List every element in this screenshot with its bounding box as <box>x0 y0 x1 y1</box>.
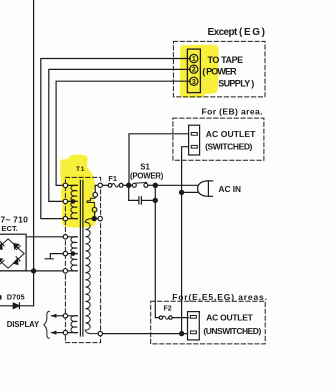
svg-text:( POWER: ( POWER <box>202 67 237 77</box>
T1 secondary A mid tap terminal <box>63 199 67 203</box>
pin 1 <box>190 54 198 62</box>
pin 3 <box>190 77 198 85</box>
highlighter over transformer T1 <box>60 155 96 228</box>
connector J TO TAPE body <box>187 49 200 93</box>
svg-text:ECT.: ECT. <box>1 224 18 233</box>
svg-text:SUPPLY ): SUPPLY ) <box>218 79 254 89</box>
outlet slot lower <box>191 145 197 148</box>
thermal fuse chain from F1 terminal <box>95 185 98 192</box>
T1 secondary A bottom tap terminal <box>63 216 67 220</box>
svg-text:(POWER): (POWER) <box>130 171 164 180</box>
T1 secondary B terminals <box>63 235 67 239</box>
highlighter over TO TAPE connector <box>180 45 219 98</box>
diode D705 line <box>0 305 34 307</box>
fuse F2 <box>159 316 162 319</box>
T1 secondary B winding <box>68 237 78 271</box>
svg-text:AC OUTLET: AC OUTLET <box>206 313 253 323</box>
wire S1 out down to F2 <box>155 185 159 317</box>
bridge diode bottom-left <box>0 258 4 264</box>
bridge diode top-left <box>0 242 4 250</box>
T1 secondary A winding <box>68 185 78 218</box>
terminal primary bottom <box>98 331 102 335</box>
AC outlet (switched) body <box>189 125 200 155</box>
wire to plug <box>155 184 197 186</box>
wire: TO TAPE pin3 to transformer top tap <box>56 81 190 185</box>
terminal right mid <box>98 216 102 220</box>
svg-text:(UNSWITCHED): (UNSWITCHED) <box>203 326 261 336</box>
transformer T1 dashed box <box>65 177 100 342</box>
T1 secondary C winding <box>68 316 78 333</box>
wire secondary B top to bridge <box>26 236 63 238</box>
chassis ground <box>45 254 63 259</box>
svg-text:For (EB) area.: For (EB) area. <box>202 107 263 117</box>
thermal fuse <box>87 197 95 207</box>
wire: switched outlet neutral down to plug neutral and bottom outlet wire <box>182 147 189 334</box>
svg-text:AC OUTLET: AC OUTLET <box>206 129 256 139</box>
terminal to F1 <box>98 183 102 187</box>
partial designator glyph at left edge <box>0 295 2 299</box>
svg-text:For(E,E5,EG) areas.: For(E,E5,EG) areas. <box>172 292 267 302</box>
bridge diamond <box>0 239 24 268</box>
svg-text:2: 2 <box>192 67 196 74</box>
bridge diode top-right <box>14 244 21 250</box>
wire: switched outlet hot to S1/F1 junction <box>129 134 189 186</box>
capacitor across S1 <box>129 185 138 200</box>
wire to display lower with arrow <box>52 332 64 334</box>
svg-text:S1: S1 <box>140 163 150 172</box>
svg-text:TO TAPE: TO TAPE <box>208 55 244 65</box>
AC plug body <box>198 181 209 196</box>
svg-text:DISPLAY: DISPLAY <box>7 320 40 329</box>
svg-text:T1: T1 <box>76 166 85 173</box>
bridge rectifier box <box>0 234 26 271</box>
dashed box Except (EG) <box>173 41 265 97</box>
plug neutral prong junction <box>180 190 184 194</box>
junction neutral <box>180 332 184 336</box>
outlet slot upper <box>190 316 196 319</box>
svg-text:3: 3 <box>192 79 196 86</box>
svg-text:(SWITCHED): (SWITCHED) <box>205 142 252 152</box>
T1 primary winding <box>85 219 94 223</box>
svg-text:AC IN: AC IN <box>219 184 242 194</box>
T1 secondary C terminals <box>63 314 67 318</box>
junction S1 out <box>153 183 157 187</box>
fuse F1 <box>108 183 112 187</box>
wire secondary B bottom <box>0 270 63 272</box>
bridge diode bottom-right <box>13 257 20 265</box>
AC outlet (unswitched) body <box>188 312 200 340</box>
display brace <box>44 311 49 338</box>
junction on border wire <box>31 269 35 273</box>
junction F1/S1 <box>127 183 131 187</box>
pin 2 <box>190 65 198 73</box>
left page border line <box>33 0 35 306</box>
main hot wire F1/S1 row <box>102 184 108 186</box>
svg-text:D705: D705 <box>7 292 25 301</box>
svg-text:Except ( E G ): Except ( E G ) <box>208 27 266 38</box>
bottom neutral wire <box>103 333 188 335</box>
diode D705 <box>13 303 19 309</box>
outlet slot lower <box>190 331 196 334</box>
dashed box For(E,E5,EG) areas <box>151 301 266 344</box>
outlet slot upper <box>191 133 197 136</box>
wire to display upper with arrow <box>52 315 64 317</box>
junction primary top <box>92 217 96 221</box>
svg-text:F1: F1 <box>108 174 117 183</box>
svg-text:F2: F2 <box>164 305 172 312</box>
switch S1 <box>132 183 136 187</box>
T1 secondary A top tap terminal <box>63 183 67 187</box>
wire: TO TAPE pin2 to transformer middle tap <box>49 69 191 201</box>
T1 core <box>79 181 81 337</box>
wire: TO TAPE pin1 to transformer bottom tap <box>41 59 191 219</box>
svg-text:1: 1 <box>192 56 196 63</box>
dashed box For (EB) area <box>173 118 264 160</box>
